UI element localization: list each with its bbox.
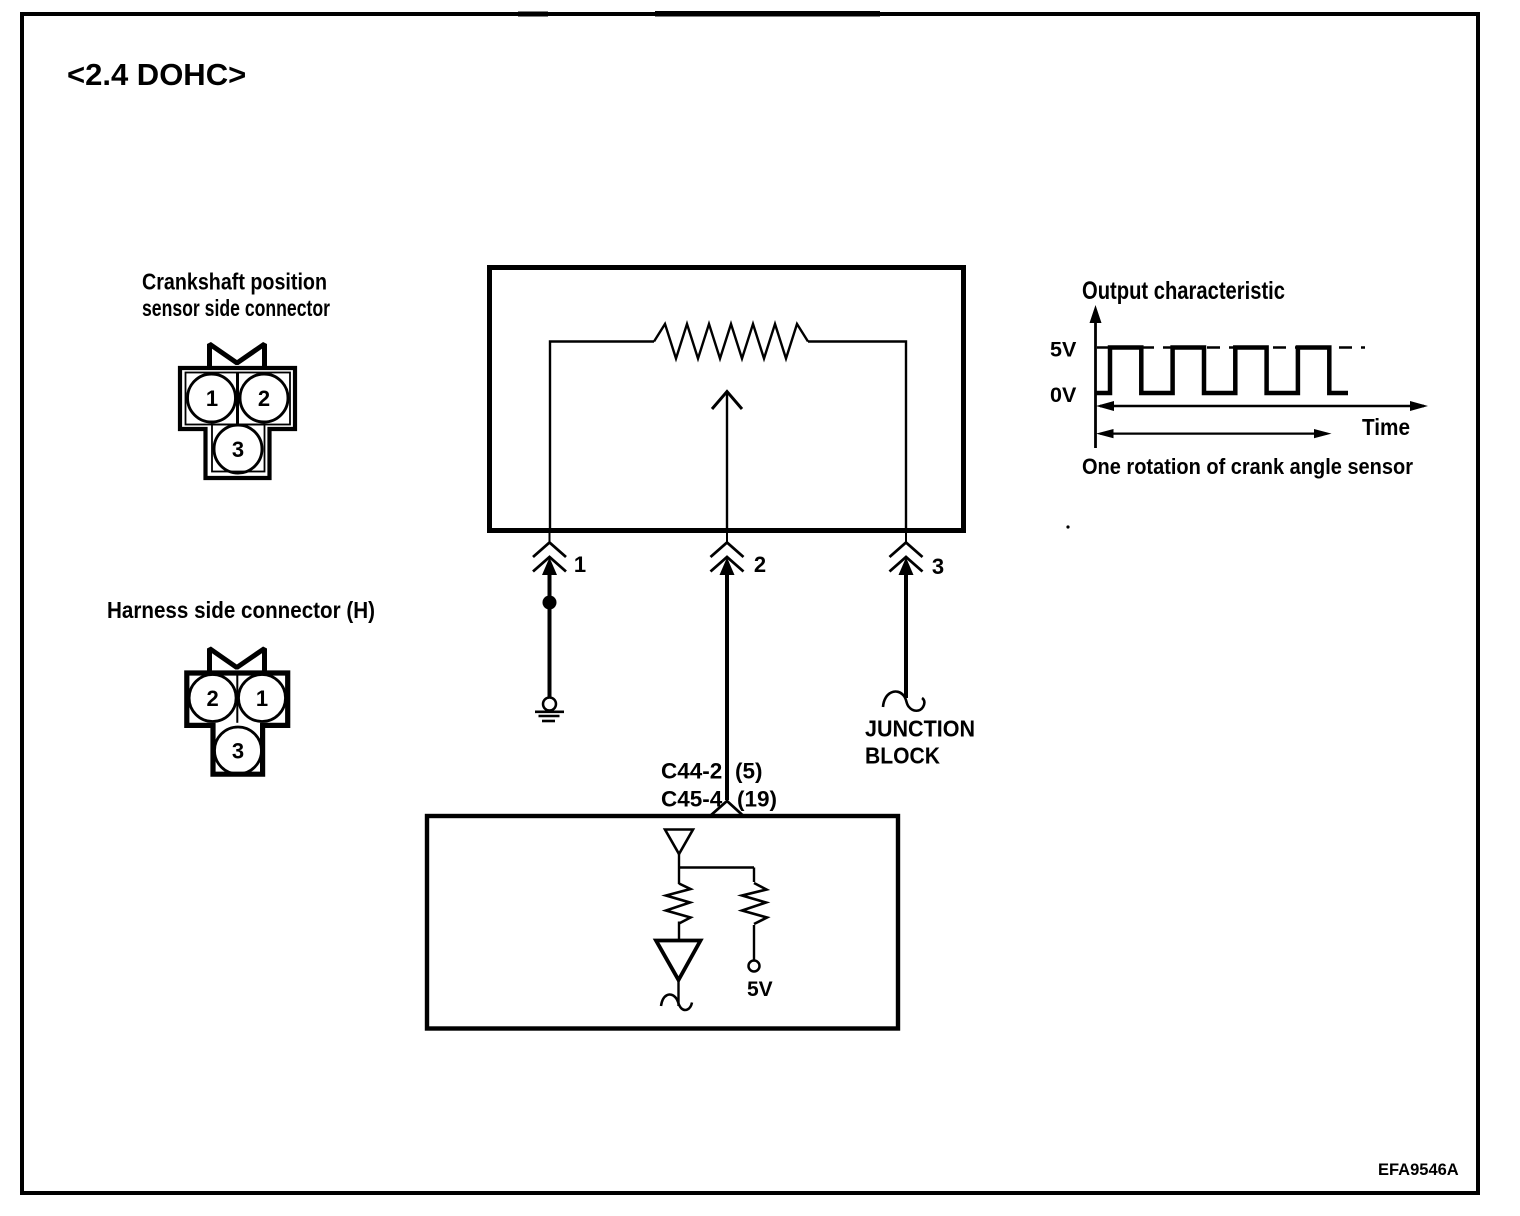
svg-text:JUNCTION: JUNCTION [865,716,975,742]
svg-text:5V: 5V [747,978,773,1001]
svg-text:BLOCK: BLOCK [865,743,940,769]
svg-text:C44-2: C44-2 [661,758,722,783]
svg-text:Output characteristic: Output characteristic [1082,277,1285,305]
svg-text:3: 3 [232,739,244,764]
svg-text:EFA9546A: EFA9546A [1378,1161,1459,1179]
svg-text:Time: Time [1362,414,1410,440]
svg-text:2: 2 [206,686,218,711]
svg-text:3: 3 [932,554,944,579]
svg-text:1: 1 [256,686,268,711]
svg-text:5V: 5V [1050,338,1077,362]
svg-text:2: 2 [258,386,270,411]
svg-text:sensor side connector: sensor side connector [142,295,330,321]
svg-text:1: 1 [206,386,218,411]
svg-text:Crankshaft position: Crankshaft position [142,269,327,295]
svg-text:2: 2 [754,552,766,577]
svg-text:3: 3 [232,437,244,462]
svg-text:1: 1 [574,552,586,577]
svg-text:(5): (5) [735,758,763,783]
svg-text:C45-4: C45-4 [661,786,723,811]
svg-text:Harness side connector (H): Harness side connector (H) [107,597,375,623]
svg-text:One rotation of crank angle se: One rotation of crank angle sensor [1082,454,1413,479]
svg-text:<2.4 DOHC>: <2.4 DOHC> [67,57,246,92]
svg-text:(19): (19) [737,786,777,811]
svg-text:0V: 0V [1050,383,1077,407]
